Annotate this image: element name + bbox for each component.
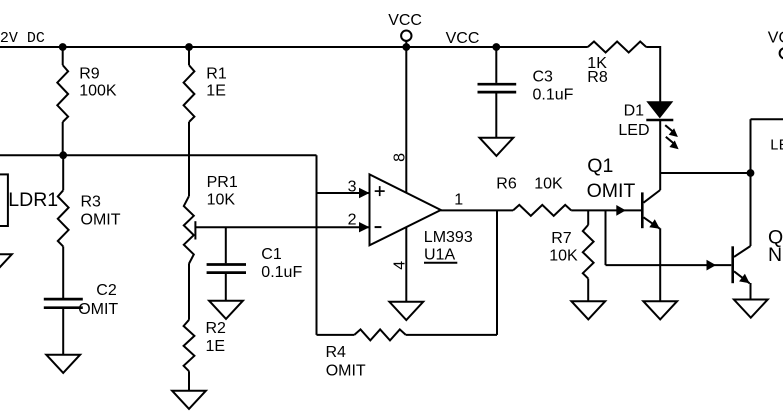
svg-text:LDR1: LDR1 <box>8 189 58 211</box>
svg-text:VCC: VCC <box>768 30 783 47</box>
svg-text:12V DC: 12V DC <box>0 30 45 47</box>
svg-text:C1: C1 <box>261 246 282 263</box>
svg-text:Q1: Q1 <box>587 155 613 177</box>
svg-text:10K: 10K <box>207 192 236 209</box>
svg-text:R9: R9 <box>79 66 100 83</box>
svg-text:R4: R4 <box>326 344 347 361</box>
svg-text:OMIT: OMIT <box>81 211 121 228</box>
svg-text:NPN: NPN <box>768 244 783 266</box>
svg-text:8: 8 <box>391 153 408 162</box>
svg-text:D1: D1 <box>624 103 645 120</box>
svg-text:OMIT: OMIT <box>326 363 366 380</box>
svg-text:1E: 1E <box>206 338 226 355</box>
svg-text:0.1uF: 0.1uF <box>261 264 302 281</box>
svg-text:3: 3 <box>348 178 357 195</box>
svg-text:1: 1 <box>454 192 463 209</box>
svg-text:OMIT: OMIT <box>587 180 636 202</box>
svg-text:OMIT: OMIT <box>78 301 118 318</box>
svg-text:4: 4 <box>391 261 408 270</box>
svg-text:LED1: LED1 <box>770 138 783 155</box>
svg-text:10K: 10K <box>549 247 578 264</box>
svg-text:R1: R1 <box>206 66 227 83</box>
svg-text:2: 2 <box>348 212 357 229</box>
svg-text:R3: R3 <box>81 194 102 211</box>
svg-text:LM393: LM393 <box>424 229 473 246</box>
svg-text:R2: R2 <box>206 320 227 337</box>
svg-text:R7: R7 <box>551 230 572 247</box>
svg-text:R6: R6 <box>496 175 517 192</box>
svg-text:0.1uF: 0.1uF <box>533 86 574 103</box>
svg-text:VCC: VCC <box>446 30 480 47</box>
svg-text:LED: LED <box>618 122 649 139</box>
svg-text:10K: 10K <box>534 175 563 192</box>
svg-text:R8: R8 <box>587 69 608 86</box>
svg-text:C2: C2 <box>96 282 117 299</box>
svg-text:VCC: VCC <box>388 12 422 29</box>
svg-text:100K: 100K <box>79 82 117 99</box>
svg-text:PR1: PR1 <box>207 174 238 191</box>
svg-text:1E: 1E <box>206 82 226 99</box>
svg-text:U1A: U1A <box>424 246 455 263</box>
svg-text:C3: C3 <box>533 69 554 86</box>
